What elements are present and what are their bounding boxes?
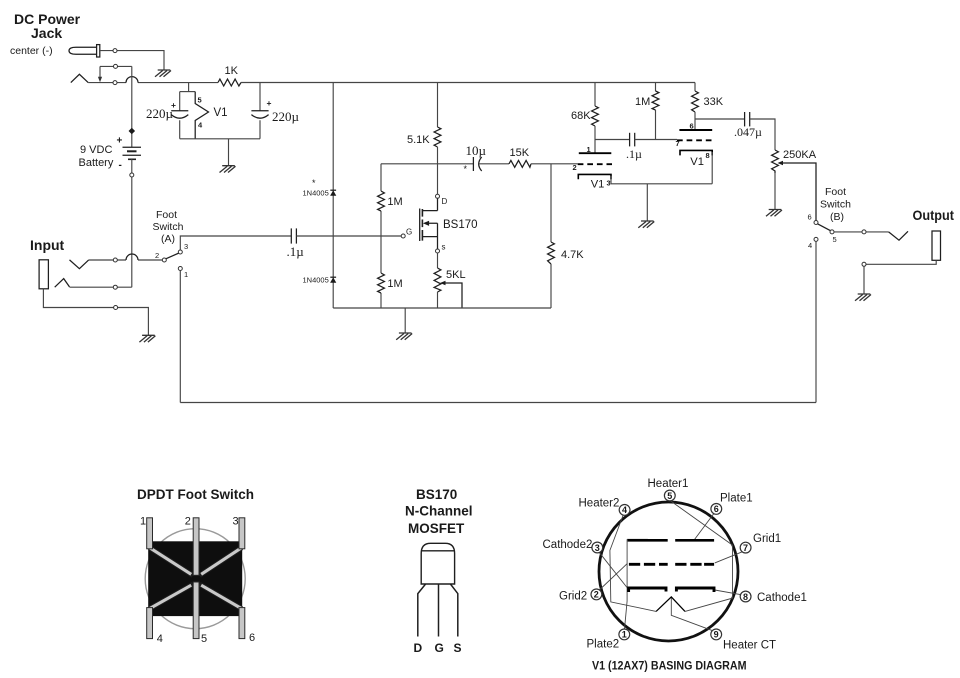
pin circle 6 xyxy=(711,504,722,515)
wire plate node to .1u cap xyxy=(595,139,630,141)
input jack J2 body xyxy=(39,260,48,289)
svg-text:1: 1 xyxy=(140,516,146,528)
output sleeve ground stem xyxy=(863,266,865,293)
svg-text:3: 3 xyxy=(184,242,188,251)
pin circle 3 xyxy=(592,542,603,553)
capacitor C1 220u left vertical leads xyxy=(179,92,181,139)
svg-text:68K: 68K xyxy=(571,110,591,122)
heater branch stem xyxy=(188,83,190,92)
svg-text:Heater2: Heater2 xyxy=(579,498,620,510)
svg-text:5: 5 xyxy=(667,491,672,501)
svg-text:Heater CT: Heater CT xyxy=(723,640,776,652)
svg-text:S: S xyxy=(454,641,462,655)
terminal circle input sleeve xyxy=(114,306,118,310)
heater group top wire xyxy=(180,91,196,93)
svg-text:6: 6 xyxy=(249,632,255,644)
diode D1 1N4005 xyxy=(330,190,336,196)
triode V1b cathode xyxy=(680,150,712,155)
capacitor C2 220u right leads xyxy=(259,83,261,139)
triode V1b plate xyxy=(679,129,712,131)
5.1K branch from rail xyxy=(437,83,439,128)
bottom ground rail xyxy=(333,307,551,309)
svg-text:-: - xyxy=(119,160,122,171)
wire pot bottom to rail xyxy=(437,292,439,308)
svg-text:Foot: Foot xyxy=(825,186,846,198)
wire pin5 to output tip xyxy=(834,231,889,233)
svg-text:V1 (12AX7) BASING DIAGRAM: V1 (12AX7) BASING DIAGRAM xyxy=(592,659,747,673)
tube heater filament xyxy=(656,597,685,612)
svg-text:Grid1: Grid1 xyxy=(753,533,781,545)
BS170 lead D xyxy=(418,584,426,637)
bypass wire bottom xyxy=(180,402,816,404)
output tip spring xyxy=(889,231,908,240)
svg-text:8: 8 xyxy=(743,592,748,602)
DPDT pin 6 bar xyxy=(239,608,245,639)
svg-text:Heater1: Heater1 xyxy=(648,478,689,490)
pin circle 8 xyxy=(740,591,751,602)
svg-text:3: 3 xyxy=(607,179,611,188)
terminal circle NC contact xyxy=(114,64,118,68)
svg-text:V1: V1 xyxy=(214,107,228,119)
foot switch A blade 2-3 xyxy=(166,253,179,259)
svg-text:5: 5 xyxy=(201,633,207,645)
foot switch A pin 2 xyxy=(162,258,166,262)
capacitor C2 plates xyxy=(251,111,268,118)
capacitor C4 10u xyxy=(473,157,481,171)
foot switch A pin 3 xyxy=(178,250,182,254)
pin circle 5 xyxy=(664,490,675,501)
svg-text:6: 6 xyxy=(808,213,812,222)
svg-text:33K: 33K xyxy=(704,96,724,108)
wire cap to grid2 xyxy=(635,139,677,141)
pin2 wire grid2 xyxy=(599,563,628,590)
capacitor C3 0.1u input xyxy=(291,228,296,243)
pin circle 7 xyxy=(740,542,751,553)
svg-text:N-Channel: N-Channel xyxy=(405,504,473,519)
svg-text:9: 9 xyxy=(714,630,719,640)
DC jack tip spring zigzag xyxy=(71,74,88,82)
svg-text:center (-): center (-) xyxy=(10,45,53,57)
svg-text:5: 5 xyxy=(198,96,202,105)
ground (output) xyxy=(855,294,871,301)
gate wire cap to mosfet xyxy=(296,235,401,237)
4.7K branch vertical xyxy=(550,164,552,242)
power rail 9V xyxy=(217,82,219,84)
svg-text:Input: Input xyxy=(30,237,65,253)
foot switch B pin 6 xyxy=(814,221,818,225)
pin circle 2 xyxy=(591,589,602,600)
svg-text:BS170: BS170 xyxy=(443,219,478,231)
svg-text:4: 4 xyxy=(157,633,163,645)
ground (cathode) xyxy=(638,221,654,228)
BS170 lead G xyxy=(438,584,440,637)
terminal circle gate xyxy=(401,234,405,238)
svg-text:D: D xyxy=(442,197,448,206)
wire pin1 to bypass line xyxy=(179,271,181,403)
wire source to pot xyxy=(437,253,439,268)
pot wiper 250KA xyxy=(778,161,817,221)
svg-text:DPDT Foot Switch: DPDT Foot Switch xyxy=(137,487,254,502)
wire drain up xyxy=(437,164,439,195)
heater group bottom wire xyxy=(180,138,260,140)
DC plug barrel J1 xyxy=(69,47,97,54)
pin7 wire grid1 xyxy=(715,552,743,563)
DPDT pin 1 bar xyxy=(147,518,153,549)
svg-text:5.1K: 5.1K xyxy=(407,134,430,146)
svg-text:1M: 1M xyxy=(635,96,650,108)
svg-text:9 VDC: 9 VDC xyxy=(80,144,112,156)
resistor R10 33K xyxy=(692,91,699,112)
resistor R2 1M upper xyxy=(378,191,385,211)
svg-text:4.7K: 4.7K xyxy=(561,249,584,261)
DC jack switch arm with arrow xyxy=(99,66,101,77)
DPDT arm center-4 xyxy=(150,584,193,609)
battery B1 9VDC xyxy=(123,147,142,159)
cathode ground stem xyxy=(646,184,648,221)
wire pot to ground xyxy=(774,173,776,209)
pin circle 9 xyxy=(711,629,722,640)
BS170 package chord line xyxy=(421,550,454,552)
transistor Q1 BS170 xyxy=(420,198,438,249)
svg-text:BS170: BS170 xyxy=(416,487,457,502)
svg-text:MOSFET: MOSFET xyxy=(408,521,465,536)
V1 heater symbol xyxy=(195,92,208,139)
battery positive wire from DC jack xyxy=(131,66,133,147)
heater ground stem xyxy=(228,139,230,166)
svg-text:6: 6 xyxy=(690,122,694,131)
wire .047u to pot xyxy=(750,119,775,150)
svg-text:220µ: 220µ xyxy=(146,106,174,121)
diode D2 1N4005 xyxy=(330,277,336,283)
svg-text:+: + xyxy=(117,136,123,147)
terminal circle jack switched contact xyxy=(113,81,117,85)
input tip wire with hop xyxy=(89,259,163,261)
hop bump over battery wire xyxy=(126,77,138,83)
pin9 wire heater CT xyxy=(671,598,712,631)
svg-text:1N4005: 1N4005 xyxy=(303,276,329,285)
wire plug tip to ground xyxy=(100,51,164,70)
svg-text:Foot: Foot xyxy=(156,209,177,221)
DPDT pin 2 bar xyxy=(193,518,199,576)
svg-text:.1µ: .1µ xyxy=(287,244,305,259)
bypass wire up to switch B pin4 xyxy=(815,241,817,402)
pin5 wire heater1 xyxy=(671,501,733,612)
svg-text:s: s xyxy=(442,243,446,252)
output jack J3 body xyxy=(932,231,941,260)
svg-text:(A): (A) xyxy=(161,233,175,245)
ground (DC plug) xyxy=(155,70,171,77)
svg-text:.047µ: .047µ xyxy=(734,125,762,139)
svg-text:V1: V1 xyxy=(591,179,605,191)
33K branch stem xyxy=(694,83,696,92)
tube plate1 element xyxy=(675,539,714,542)
input ring wire xyxy=(70,286,132,288)
wire cathode2 down xyxy=(711,152,713,184)
svg-text:1N4005: 1N4005 xyxy=(303,189,329,198)
svg-text:10µ: 10µ xyxy=(466,143,487,158)
svg-text:3: 3 xyxy=(233,516,239,528)
svg-text:7: 7 xyxy=(743,543,748,553)
wire 33K to plate2 xyxy=(694,112,696,130)
svg-text:250KA: 250KA xyxy=(783,149,817,161)
tube plate2 element xyxy=(628,539,668,542)
svg-text:Output: Output xyxy=(913,207,955,223)
resistor R1 1K xyxy=(218,79,241,86)
foot switch B pin 5 xyxy=(830,230,834,234)
DPDT arm center-6 xyxy=(200,584,242,609)
input ring spring xyxy=(55,279,70,288)
wire 1M to grid wire xyxy=(655,110,657,140)
svg-text:G: G xyxy=(435,641,444,655)
svg-text:Cathode1: Cathode1 xyxy=(757,592,807,604)
svg-text:+: + xyxy=(267,98,272,108)
svg-text:Cathode2: Cathode2 xyxy=(543,539,593,551)
cathode bottom wire xyxy=(611,183,712,185)
pin8 wire cathode1 xyxy=(715,590,742,595)
svg-text:2: 2 xyxy=(185,516,191,528)
triode V1a cathode xyxy=(578,174,611,179)
DPDT body circle xyxy=(145,529,245,629)
terminal circle output tip xyxy=(862,230,866,234)
pin4 wire heater2 xyxy=(610,515,656,611)
svg-text:Plate2: Plate2 xyxy=(587,639,620,651)
plate2 top thin line xyxy=(627,538,648,540)
DPDT black body xyxy=(148,541,242,616)
svg-text:V1: V1 xyxy=(690,156,704,168)
pin3 wire cathode2 xyxy=(599,552,628,588)
svg-text:*: * xyxy=(312,178,316,188)
potentiometer R11 250KA xyxy=(772,150,779,173)
ground stem bottom rail xyxy=(404,308,406,333)
svg-text:1: 1 xyxy=(622,630,627,640)
68K branch stem xyxy=(594,83,596,107)
resistor R4 5.1K xyxy=(434,127,441,147)
tube envelope circle xyxy=(599,502,738,641)
wire 68K to plate1 xyxy=(594,126,596,153)
wire 15K to grid1 xyxy=(531,163,578,165)
svg-text:Plate1: Plate1 xyxy=(720,493,753,505)
BS170 lead S xyxy=(450,584,457,637)
junction diamond xyxy=(129,128,136,135)
capacitor C6 .047u xyxy=(745,112,750,126)
DPDT pin 4 bar xyxy=(147,608,153,639)
1M branch stem xyxy=(655,83,657,92)
output sleeve wire xyxy=(864,260,936,264)
foot switch A pin 1 xyxy=(178,267,182,271)
DC plug flange xyxy=(97,45,100,57)
pot wiper 5KL xyxy=(440,281,462,308)
terminal circle drain xyxy=(436,194,440,198)
svg-text:1M: 1M xyxy=(387,196,402,208)
ground (input) xyxy=(139,335,155,342)
terminal circle input tip xyxy=(113,258,117,262)
DPDT pin 5 bar xyxy=(193,582,199,639)
terminal circle plug tip xyxy=(113,49,117,53)
foot switch B pin 4 xyxy=(814,237,818,241)
svg-text:Switch: Switch xyxy=(820,199,851,211)
svg-text:.1µ: .1µ xyxy=(626,147,642,161)
svg-text:1: 1 xyxy=(184,270,188,279)
resistor R8 68K xyxy=(592,106,599,126)
battery negative wire to input jack ring xyxy=(131,159,133,287)
ground (bottom rail) xyxy=(396,333,412,340)
input tip spring xyxy=(70,260,89,269)
terminal circle source xyxy=(436,249,440,253)
svg-text:4: 4 xyxy=(622,505,627,515)
svg-text:Battery: Battery xyxy=(79,157,114,169)
svg-text:1: 1 xyxy=(587,145,591,154)
svg-text:8: 8 xyxy=(706,151,710,160)
wire 5.1K to drain node xyxy=(437,147,439,164)
diode branch vertical xyxy=(332,83,334,309)
DPDT pin 3 bar xyxy=(239,518,245,549)
DPDT arm 1-center xyxy=(150,548,193,576)
rail segment after 1K xyxy=(241,82,695,84)
svg-text:4: 4 xyxy=(808,241,812,250)
hop bump over battery wire (input) xyxy=(126,254,138,260)
svg-text:2: 2 xyxy=(155,251,159,260)
capacitor C5 0.1u interstage xyxy=(630,133,635,147)
pin circle 4 xyxy=(619,505,630,516)
svg-text:5KL: 5KL xyxy=(446,269,466,281)
terminal circle input ring xyxy=(113,285,117,289)
foot switch B blade 6-5 xyxy=(818,224,831,231)
wire jack to rail with hop over battery line xyxy=(88,82,218,84)
wire 4.7K to bottom rail xyxy=(550,264,552,308)
triode V1a plate xyxy=(579,152,612,154)
svg-text:Grid2: Grid2 xyxy=(559,591,587,603)
svg-text:6: 6 xyxy=(714,504,719,514)
svg-text:G: G xyxy=(406,228,412,237)
terminal circle output sleeve xyxy=(862,262,866,266)
svg-text:220µ: 220µ xyxy=(272,109,300,124)
svg-text:2: 2 xyxy=(573,163,577,172)
wire plate2 to .047u xyxy=(695,118,745,120)
svg-text:2: 2 xyxy=(594,590,599,600)
pin1 wire plate2 xyxy=(625,539,628,629)
pin circle 1 xyxy=(619,629,630,640)
BS170 package body xyxy=(421,543,454,584)
drain node wire horizontal xyxy=(381,163,473,165)
DPDT arm 3-center xyxy=(200,548,242,576)
pin6 wire plate1 xyxy=(695,514,714,540)
wire 10u to 15K xyxy=(480,163,510,165)
svg-text:(B): (B) xyxy=(830,211,844,223)
tube grid2 dashes xyxy=(629,563,668,566)
capacitor C1 plates xyxy=(171,111,188,118)
triode V1a grid dashed xyxy=(578,163,612,165)
bias column vertical 1M resistors xyxy=(380,164,382,308)
wire cathode1 down xyxy=(610,176,612,184)
tube cathode1 element xyxy=(676,588,714,592)
svg-text:1K: 1K xyxy=(225,65,239,77)
resistor R6 15K xyxy=(509,160,531,167)
tube grid1 dashes xyxy=(675,563,714,566)
resistor R3 1M lower xyxy=(378,273,385,293)
svg-text:7: 7 xyxy=(676,139,680,148)
svg-text:*: * xyxy=(464,164,468,174)
svg-text:Switch: Switch xyxy=(153,221,184,233)
svg-text:D: D xyxy=(414,641,423,655)
wire pin3 to gate line xyxy=(180,236,291,250)
resistor R9 1M xyxy=(652,91,659,110)
terminal circle battery negative xyxy=(130,173,134,177)
DC jack NC contact line xyxy=(100,65,132,67)
input sleeve wire to ground xyxy=(43,289,148,335)
svg-text:1M: 1M xyxy=(387,278,402,290)
svg-text:15K: 15K xyxy=(510,147,530,159)
svg-text:5: 5 xyxy=(833,235,837,244)
ground (heater) xyxy=(220,166,236,173)
ground (250KA) xyxy=(766,210,782,217)
svg-text:3: 3 xyxy=(595,543,600,553)
svg-text:Jack: Jack xyxy=(31,25,62,41)
triode V1b grid dashed xyxy=(677,139,712,141)
resistor R7 4.7K xyxy=(548,242,555,264)
potentiometer R5 5KL xyxy=(434,268,441,292)
tube cathode2 element xyxy=(629,588,666,592)
